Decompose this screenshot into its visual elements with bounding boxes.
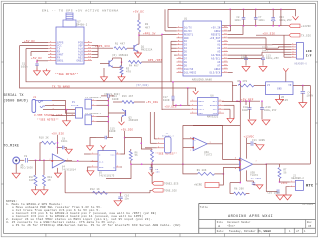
U1 right pin 27: [222, 37, 229, 39]
capacitor C16: [265, 190, 267, 192]
wires from J1: [45, 105, 65, 107]
ground under C8: [65, 149, 72, 154]
capacitor C8: [58, 146, 63, 148]
wire R1 to Q1 base: [127, 47, 134, 49]
resistor R17: [34, 175, 37, 186]
transistor Q3: [125, 110, 127, 116]
wire chain down to flag: [151, 164, 153, 183]
wire to C1: [36, 60, 38, 63]
svg-text:1M: 1M: [48, 179, 52, 182]
svg-text:o P1 to J6 for FTDIChip USB-Se: o P1 to J6 for FTDIChip USB-Serial Cable…: [12, 223, 181, 227]
svg-text:100n: 100n: [235, 19, 242, 22]
resistor R9: [198, 172, 215, 175]
svg-text:R9 20K: R9 20K: [197, 169, 207, 172]
ground arrow under C2: [256, 185, 263, 189]
svg-text:SDA: SDA: [213, 112, 218, 115]
resistor R5 input: [238, 84, 254, 87]
ground under C19: [262, 120, 270, 125]
wire audio chain: [131, 163, 240, 165]
wire rail x240 down: [239, 82, 241, 183]
resistor R3: [120, 66, 123, 75]
svg-text:4K7: 4K7: [145, 27, 150, 30]
svg-text:10n: 10n: [125, 197, 130, 200]
svg-text:HVD: HVD: [199, 104, 204, 107]
resistor R6: [129, 151, 132, 161]
wire +5 ref rail: [237, 100, 260, 102]
net arrow under Q3: [121, 117, 123, 122]
J7 pin 1: [157, 138, 165, 140]
wire rail x310 from regulator: [309, 86, 311, 165]
capacitor C12: [245, 55, 247, 58]
wire Q2 emitter down: [113, 66, 122, 68]
wire R9 left: [183, 125, 198, 173]
wire U3A feedback loop: [183, 125, 240, 159]
U7 left pin 3: [48, 48, 56, 50]
svg-text:2N3906: 2N3906: [129, 119, 139, 122]
resistor R7: [279, 164, 281, 167]
capacitor C18: [245, 101, 247, 105]
junction output rail: [240, 164, 241, 165]
svg-text:GND: GND: [99, 166, 104, 169]
J8 pin 2: [291, 46, 296, 48]
wire tag to R9 rail: [219, 174, 223, 185]
svg-text:D13/SCK: D13/SCK: [210, 71, 221, 74]
wire U5 Q out: [120, 166, 122, 168]
svg-text:+5V_DIG: +5V_DIG: [146, 101, 158, 104]
svg-text:**SEE NOTES**: **SEE NOTES**: [37, 119, 59, 122]
wire Q2 collector to R4 rail: [112, 58, 114, 60]
U1 right pin 25: [222, 44, 229, 46]
wire left loop A: [20, 46, 188, 89]
U1 right pin 19: [222, 64, 229, 66]
U1 left pin 9: [177, 54, 184, 56]
svg-text:100n: 100n: [21, 65, 28, 68]
capacitor C8 bypass: [243, 9, 245, 17]
J7 pin 2: [157, 142, 165, 144]
U1 left pin 7: [177, 47, 184, 49]
U7 right pin 8: [84, 42, 92, 44]
U1 right pin 30: [222, 27, 229, 29]
border zone ticks left: [1, 61, 3, 63]
svg-text:R16 4K7: R16 4K7: [122, 95, 134, 98]
svg-text:+WIRE: +WIRE: [194, 184, 202, 187]
U1 right pin 18: [222, 68, 229, 70]
svg-text:05: 05: [308, 225, 312, 228]
ground W pair: [276, 195, 284, 200]
U8 body: [198, 98, 219, 116]
svg-text:ADD: ADD: [199, 112, 204, 115]
svg-text:+5V_SIG: +5V_SIG: [52, 132, 65, 135]
flip-flop U5 body: [98, 151, 116, 171]
wire R2 to Q1 collector: [138, 32, 140, 44]
svg-text:LCD: LCD: [306, 50, 312, 53]
svg-text:TX_SIG: TX_SIG: [301, 34, 311, 37]
header J3 body: [85, 99, 91, 109]
net arrow above regulator: [283, 68, 288, 71]
svg-text:TX_TO_NANO: TX_TO_NANO: [52, 85, 70, 88]
U7 right pin 12: [84, 54, 92, 56]
ground U8 right: [227, 118, 234, 123]
wire U1 D13 down: [228, 71, 233, 73]
inverter U4: [52, 154, 65, 168]
wire +5 top bus: [168, 8, 296, 10]
svg-text:HEADER-6: HEADER-6: [295, 62, 308, 65]
svg-text:14: 14: [88, 58, 91, 61]
wire into P1 pin1: [52, 114, 75, 116]
U7 left pin 2: [48, 45, 56, 47]
wire C15 to ground: [90, 138, 96, 146]
wire U1 RESET right: [228, 26, 243, 35]
svg-text:ADDER: ADDER: [210, 104, 218, 107]
svg-text:10n: 10n: [155, 171, 160, 174]
svg-text:+5V_REF: +5V_REF: [241, 99, 254, 102]
U8 right pin 8: [218, 100, 224, 102]
U1 right pin 17: [222, 71, 229, 73]
capacitor C10: [120, 193, 122, 197]
wire U1 left ladder: [171, 40, 177, 42]
svg-text:VI: VI: [267, 84, 271, 87]
svg-text:GND1: GND1: [57, 60, 64, 63]
U1 right pin 28: [222, 33, 229, 35]
wire J7 feed 1: [153, 112, 155, 139]
ground Q1 emitter: [138, 52, 139, 53]
U7 left pin 4: [48, 51, 56, 53]
U7 left pin 5: [48, 54, 56, 56]
resistor R8: [234, 192, 246, 195]
J8 pin 6: [291, 56, 296, 58]
ground under C15: [87, 146, 94, 151]
U1 right pin 22: [222, 54, 229, 56]
U7 right pin 10: [84, 48, 92, 50]
U5 pin 2: [91, 161, 99, 163]
svg-text:+PPS_3V3: +PPS_3V3: [95, 45, 110, 48]
ground right of C1: [46, 69, 48, 71]
svg-text:R2: R2: [145, 23, 149, 26]
svg-text:VO: VO: [288, 84, 292, 87]
svg-text:Title: Title: [200, 206, 208, 209]
ground right of C11: [254, 143, 256, 145]
J8 pin 5: [291, 54, 296, 56]
ground under C18: [248, 120, 256, 125]
svg-text:**SEE NOTES**: **SEE NOTES**: [55, 72, 79, 76]
resistor R1: [114, 47, 127, 50]
svg-text:EM408-2: EM408-2: [76, 24, 88, 27]
svg-text:A: A: [218, 225, 220, 228]
J3 pins: [91, 100, 96, 102]
U8 left pin 2: [190, 104, 198, 106]
wire rail x232 down: [232, 82, 234, 102]
wire U6 to rail: [222, 101, 240, 103]
svg-text:of: of: [296, 230, 300, 233]
ground under C4: [299, 103, 307, 108]
svg-text:CILT: CILT: [199, 108, 205, 111]
transistor Q2: [108, 61, 110, 67]
wire +5V_DC to R2: [138, 13, 140, 20]
svg-text:100n: 100n: [241, 57, 248, 60]
svg-text:U8: U8: [211, 94, 215, 97]
svg-text:ARDUINO_NANO: ARDUINO_NANO: [192, 78, 212, 81]
net flag TX_SIG: [289, 33, 300, 37]
capacitor C3 on chain: [150, 164, 152, 167]
svg-text:74LVC1G14: 74LVC1G14: [62, 169, 76, 172]
svg-text:10K: 10K: [29, 179, 34, 182]
resistor R10: [42, 141, 56, 144]
wire +5V_SIG down: [57, 135, 59, 154]
wire +12 into regulator: [232, 85, 237, 87]
wire +PPS_3V to bus: [139, 34, 162, 36]
svg-text:J1: J1: [33, 96, 37, 99]
J4 pins: [91, 116, 96, 118]
wire R9 right to U3B inv: [215, 173, 224, 175]
svg-text:GPS_/RST: GPS_/RST: [148, 58, 163, 62]
border zone ticks right: [315, 61, 317, 63]
svg-text:C2 100n: C2 100n: [251, 177, 262, 180]
svg-text:TONE_DIG: TONE_DIG: [164, 190, 177, 193]
net arrow end of bus: [295, 9, 297, 16]
bus vertical x108: [107, 97, 109, 125]
capacitor C4 out: [302, 86, 304, 91]
svg-text:HEADER-2: HEADER-2: [292, 177, 305, 180]
wire U3B power top: [246, 152, 248, 159]
J8 pin 4: [291, 51, 296, 53]
wire U5 VCC feed: [120, 131, 124, 154]
net flag +12VDC: [289, 24, 300, 28]
U8 right pin 5: [218, 112, 224, 114]
svg-text:U1: U1: [184, 18, 188, 21]
ground under R3: [121, 75, 123, 77]
svg-text:100n: 100n: [242, 109, 249, 112]
capacitor C14: [106, 94, 108, 99]
U5 pin 4: [116, 166, 121, 168]
title block dividers: [214, 220, 216, 234]
U1 left pin 11: [177, 61, 184, 63]
capacitor C15: [104, 136, 106, 140]
J8 pin 3: [291, 49, 296, 51]
U7 right pin 9: [84, 45, 92, 47]
U1 right pin 21: [222, 58, 229, 60]
wire J1 tip to P1: [52, 100, 75, 113]
header J7 body: [164, 137, 171, 153]
svg-text:100n: 100n: [61, 140, 68, 143]
capacitor C9: [25, 158, 27, 163]
net arrow above U5: [101, 145, 106, 148]
net tag rect: [205, 183, 219, 188]
capacitor C34 polarized: [272, 9, 274, 17]
ground under J6: [15, 164, 17, 173]
svg-text:TO_MIKE: TO_MIKE: [3, 145, 19, 149]
svg-text:+12VDC: +12VDC: [301, 25, 311, 28]
wire under U8: [193, 125, 240, 127]
J8 pin 1: [291, 43, 296, 45]
wire U3B power bottom: [246, 170, 248, 178]
svg-text:Rev: Rev: [307, 221, 312, 224]
U1 left pin 1: [177, 27, 184, 29]
U7 left pin 7: [48, 60, 56, 62]
junction top bus: [230, 9, 231, 10]
svg-text:GND1: GND1: [199, 100, 205, 103]
svg-text:MAX3221: MAX3221: [207, 116, 219, 119]
regulator U5 body: [266, 82, 293, 95]
capacitor C17: [172, 82, 174, 96]
wire TX_SIG flag: [256, 34, 289, 36]
svg-text:100N: 100N: [307, 94, 314, 97]
wires U8 right: [224, 104, 234, 106]
U1 right pin 29: [222, 30, 229, 32]
wire loop A corner arrow: [188, 88, 196, 91]
svg-text:PULSE: PULSE: [71, 104, 79, 107]
svg-text:R1 4K7: R1 4K7: [115, 42, 125, 45]
U7 left pin 6: [48, 57, 56, 59]
wire U7 pin9 to R1: [92, 47, 113, 49]
J2 pins: [290, 181, 296, 183]
LCD header J8 body: [296, 43, 303, 60]
wire bias R18: [43, 160, 45, 175]
svg-text:RTC: RTC: [306, 185, 314, 189]
stereo jack J1 body: [32, 100, 36, 113]
svg-text:C16 100n: C16 100n: [268, 192, 281, 195]
U7 right pin 13: [84, 57, 92, 59]
resistor R12: [93, 191, 108, 194]
wire out to RTC rail: [265, 164, 267, 190]
wire Q3 base: [108, 112, 125, 114]
mic jack J6: [13, 157, 20, 164]
U8 left pin 1: [190, 100, 198, 102]
svg-text:+5V_DC: +5V_DC: [133, 11, 144, 14]
wire into U5 D pin: [84, 153, 91, 155]
wire audio tap down to R12 rail: [64, 171, 66, 193]
svg-text:Sheet: Sheet: [263, 230, 271, 233]
U8 left pin 4: [190, 112, 198, 114]
wires into LCD header: [273, 43, 292, 45]
wire C15 drop: [107, 125, 109, 138]
header J4 body: [85, 115, 91, 125]
ground under U4: [55, 173, 62, 178]
net arrow below wire: [193, 91, 199, 94]
connector P1 body: [75, 108, 82, 118]
capacitor C1: [35, 63, 38, 65]
wire J7 feed 3: [145, 147, 157, 149]
wire J7 feed 2: [149, 112, 151, 143]
wire left loop B: [26, 49, 233, 82]
U7 right pin 11: [84, 51, 92, 53]
svg-text:CLK: CLK: [99, 161, 104, 164]
svg-text:+5V_DIG: +5V_DIG: [121, 128, 133, 131]
U1 left pin 5: [177, 40, 184, 42]
wire U4 gnd below: [57, 168, 59, 173]
U1 left pin 10: [177, 58, 184, 60]
wire U1 left pin9: [174, 54, 177, 56]
wire +12 lower rail: [222, 25, 289, 27]
svg-text:100N: 100N: [163, 99, 170, 102]
stereo jack contacts: [38, 101, 43, 103]
GPS module U7 antenna connector: [66, 13, 73, 20]
U1 left pin 12: [177, 64, 184, 66]
wire bus tie: [229, 9, 231, 25]
J7 pin 3: [157, 147, 165, 149]
wire U1 left pin3 PPS: [162, 33, 177, 35]
resistor R13: [151, 150, 154, 162]
U1 left pin 3: [177, 33, 184, 35]
wire U8 left feeds: [187, 88, 189, 105]
ground under C1: [36, 69, 38, 71]
wire Q2 base: [100, 63, 109, 65]
wire U4 output: [65, 160, 98, 162]
svg-text:100u,25V: 100u,25V: [266, 57, 279, 60]
wire +12 down: [246, 138, 248, 152]
wire U3A noninv: [183, 138, 193, 140]
U8 left pin 3: [190, 108, 198, 110]
svg-text:(57,600): (57,600): [136, 84, 149, 87]
resistor R4: [129, 61, 142, 64]
capacitor C13: [262, 55, 264, 58]
svg-text:R12 1K: R12 1K: [90, 188, 100, 191]
wire U7 pin1 stub: [22, 42, 48, 44]
wire U5 gnd pin: [88, 167, 91, 171]
svg-text:+5V_DIG: +5V_DIG: [165, 106, 177, 109]
wire into J2 pin2: [286, 187, 290, 195]
svg-text:+5V_DC: +5V_DC: [31, 57, 42, 60]
svg-text:PN2222A: PN2222A: [141, 49, 153, 52]
wire U1 IN_OUT right: [228, 37, 266, 39]
svg-text:C9: C9: [24, 155, 28, 158]
resistor R2: [138, 20, 141, 32]
svg-text:ARDUINO APRS WX4I: ARDUINO APRS WX4I: [228, 215, 273, 219]
svg-text:56: 56: [135, 154, 139, 157]
transistor Q1: [133, 45, 135, 51]
svg-text:100N: 100N: [112, 98, 119, 101]
svg-text:D11/MOSI: D11/MOSI: [184, 71, 197, 74]
U7 left pin 1: [48, 42, 56, 44]
capacitor C7 bypass: [255, 9, 257, 17]
svg-text:MIC/JACK: MIC/JACK: [21, 167, 34, 170]
wire U1 left pin2: [165, 30, 177, 32]
U1 left pin 4: [177, 37, 184, 39]
GPS module U7 body: [56, 27, 84, 64]
border zone ticks top: [45, 1, 47, 3]
svg-text:(D5): (D5): [262, 49, 268, 52]
svg-text:R4 4K7: R4 4K7: [129, 65, 139, 68]
wire U3A inv: [183, 147, 193, 149]
border zone ticks bottom: [45, 233, 47, 236]
U1 left pin 2: [177, 30, 184, 32]
U8 right pin 6: [218, 108, 224, 110]
ground J1 sleeve: [66, 110, 68, 121]
wire Q loop below: [106, 164, 131, 178]
svg-text:<Doc>: <Doc>: [227, 225, 235, 228]
capacitor C19: [261, 101, 263, 108]
svg-text:Document Number: Document Number: [227, 221, 251, 224]
junction TX line: [187, 87, 188, 88]
wire J6 to C9: [20, 159, 25, 161]
junction R3 top: [121, 62, 122, 63]
svg-text:100n: 100n: [258, 19, 265, 22]
ground left of Q2: [101, 77, 108, 82]
ground under U5: [87, 171, 94, 176]
U1 right pin 23: [222, 51, 229, 53]
wire U3A output right: [207, 143, 222, 145]
wire into J2 pin1: [280, 181, 290, 183]
U1 right pin 20: [222, 61, 229, 63]
ground under C3: [148, 172, 154, 175]
U1 left pin 14: [177, 71, 184, 73]
wires U1 analog pins right: [228, 44, 273, 46]
svg-text:(9600 BAUD): (9600 BAUD): [3, 99, 28, 104]
svg-text:470: 470: [126, 71, 131, 74]
wire U1 +5V_IN to cap rail: [228, 26, 231, 31]
wire U1 left pin1 to bus: [168, 27, 177, 29]
resistor R18: [43, 175, 46, 186]
wire R10 to input: [40, 143, 42, 161]
